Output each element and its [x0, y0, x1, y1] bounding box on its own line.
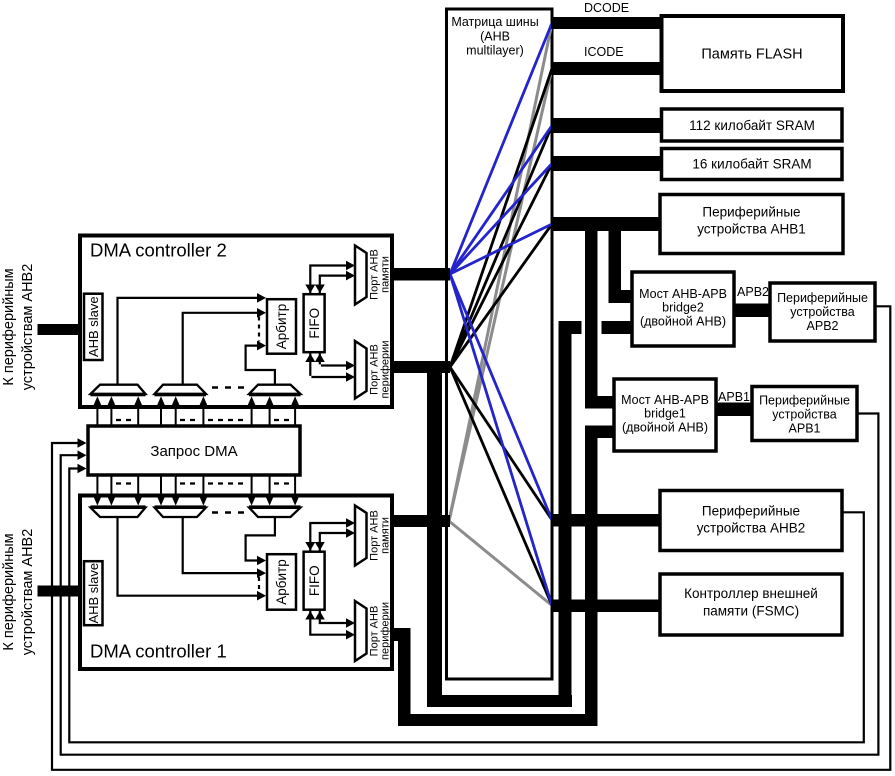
box 112 килобайт SRAM	[662, 109, 843, 141]
mux 1 (DMA1)	[91, 505, 146, 517]
svg-text:bridge1: bridge1	[644, 407, 686, 421]
dashes between mux2 and mux3 (DMA1)	[212, 511, 245, 514]
svg-text:(двойной AHB): (двойной AHB)	[622, 421, 708, 435]
svg-text:FIFO: FIFO	[307, 565, 322, 596]
svg-text:16 килобайт SRAM: 16 килобайт SRAM	[692, 157, 811, 172]
svg-text:(AHB: (AHB	[480, 30, 510, 44]
svg-text:памяти (FSMC): памяти (FSMC)	[703, 604, 799, 619]
svg-text:Запрос DMA: Запрос DMA	[150, 443, 237, 460]
wires Запрос DMA to DMA2 muxes (up arrows)	[97, 403, 295, 427]
svg-text:AHB slave: AHB slave	[86, 296, 101, 357]
svg-text:Арбитр: Арбитр	[274, 304, 289, 349]
box FIFO (DMA2)	[304, 294, 325, 352]
label К периферийным устройствам AHB2 (lower)	[1, 529, 36, 656]
box Мост AHB-APB bridge2	[632, 272, 734, 346]
svg-text:APB1: APB1	[718, 390, 750, 404]
svg-text:Периферийные: Периферийные	[759, 394, 850, 408]
wire FIFO to peripheral port lower (DMA2)	[305, 354, 355, 382]
box Память FLASH	[662, 16, 844, 91]
box Периферийные устройства APB1	[752, 387, 857, 441]
wire FIFO to memory port lower (DMA1)	[315, 528, 355, 550]
port trapezoid Порт AHB памяти (DMA1)	[355, 506, 392, 566]
wire FIFO to memory port upper (DMA1)	[305, 518, 355, 550]
svg-text:Порт AHB: Порт AHB	[368, 606, 380, 657]
svg-text:периферии: периферии	[380, 602, 392, 660]
wire mux1 to Арбитр (DMA2)	[116, 293, 266, 385]
node L3 gray fan (DMA1 memory port master)	[449, 23, 552, 606]
box Периферийные устройства AHB1	[660, 195, 843, 254]
svg-text:устройства: устройства	[790, 305, 854, 319]
wire mux2 to Арбитр (DMA2)	[182, 308, 266, 385]
port trapezoid Порт AHB периферии (DMA2)	[355, 341, 392, 399]
svg-text:ICODE: ICODE	[584, 45, 624, 59]
wire FIFO to memory port upper (DMA2)	[305, 261, 355, 293]
bus matrix to 16K SRAM	[551, 156, 665, 171]
bus DMA1 peripheral port to bridge1 lower port	[390, 426, 616, 727]
svg-text:устройствам AHB2: устройствам AHB2	[20, 529, 36, 656]
box Контроллер внешней памяти (FSMC)	[660, 574, 842, 635]
bus DMA1 memory port to matrix	[390, 515, 450, 527]
wires Запрос DMA to DMA1 muxes (down arrows)	[97, 477, 295, 499]
dashed wire Арбитр input (DMA2)	[258, 317, 260, 342]
node L1 blue fan (DMA2 memory port master)	[450, 23, 552, 606]
svg-text:APB2: APB2	[807, 319, 839, 333]
label К периферийным устройствам AHB2 (upper)	[1, 264, 36, 391]
bus ICODE (matrix to FLASH)	[551, 62, 665, 75]
svg-text:FIFO: FIFO	[307, 308, 322, 339]
bus AHB2 peripherals entry DMA2 (left edge)	[38, 324, 84, 335]
box Арбитр (DMA1)	[267, 554, 296, 610]
svg-text:памяти: памяти	[380, 517, 392, 554]
bus branch AHB1 to bridge2 upper port	[609, 220, 633, 303]
bus branch AHB1 to bridge1 upper port	[585, 220, 616, 409]
bus DMA2 peripheral port to bridge2 lower port	[390, 321, 632, 707]
port trapezoid Порт AHB памяти (DMA2)	[355, 246, 392, 305]
wire mux3 to Арбитр (DMA1)	[246, 517, 275, 565]
node L2 black fan (DMA2 peripheral port master)	[450, 69, 552, 606]
svg-text:устройства AHB1: устройства AHB1	[697, 222, 806, 237]
bus matrix to 112K SRAM	[551, 118, 665, 133]
svg-text:Контроллер внешней: Контроллер внешней	[684, 586, 818, 601]
svg-text:multilayer): multilayer)	[466, 44, 524, 58]
bus matrix to AHB1 peripherals	[551, 217, 662, 231]
svg-text:устройства AHB2: устройства AHB2	[697, 521, 806, 536]
svg-text:Периферийные: Периферийные	[702, 504, 800, 519]
wire FIFO to memory port lower (DMA2)	[315, 271, 355, 293]
mux 1 (DMA2)	[91, 385, 146, 397]
box DMA controller 2	[80, 236, 392, 408]
box Мост AHB-APB bridge1	[614, 379, 716, 451]
box Запрос DMA	[88, 426, 300, 475]
box FIFO (DMA1)	[304, 552, 325, 610]
svg-text:112 килобайт SRAM: 112 килобайт SRAM	[689, 118, 815, 133]
dashed wire Арбитр input (DMA1)	[258, 577, 260, 592]
box Периферийные устройства AHB2	[660, 491, 842, 551]
label Матрица шины (AHB multilayer)	[451, 15, 538, 58]
svg-text:bridge2: bridge2	[662, 301, 704, 315]
label APB2	[737, 285, 769, 299]
svg-text:DMA controller 2: DMA controller 2	[90, 240, 227, 261]
mux 3 (DMA1)	[249, 505, 301, 517]
bus DMA2 memory port to matrix	[390, 268, 450, 281]
svg-text:Порт AHB: Порт AHB	[368, 344, 380, 395]
label DCODE	[584, 1, 629, 15]
svg-text:Арбитр: Арбитр	[274, 559, 289, 604]
label ICODE	[584, 45, 624, 59]
box Арбитр (DMA2)	[267, 299, 296, 354]
wire FIFO to peripheral port lower (DMA1)	[305, 611, 355, 640]
svg-text:периферии: периферии	[380, 341, 392, 399]
wire DMA request feedback from APB1 peripherals to Запрос DMA	[61, 414, 879, 755]
wire DMA request feedback from AHB2 peripherals to Запрос DMA	[69, 464, 864, 743]
mux 3 (DMA2)	[249, 385, 301, 397]
mux 2 (DMA2)	[155, 385, 207, 397]
svg-text:устройства: устройства	[772, 408, 836, 422]
svg-text:Порт AHB: Порт AHB	[368, 249, 380, 300]
svg-text:памяти: памяти	[380, 256, 392, 293]
svg-text:К периферийным: К периферийным	[1, 533, 17, 650]
port trapezoid Порт AHB периферии (DMA1)	[355, 601, 392, 661]
bus DCODE (matrix to FLASH)	[551, 17, 665, 29]
bus bridge2 to APB2 peripherals	[732, 304, 772, 318]
svg-text:DCODE: DCODE	[584, 1, 629, 15]
wire mux2 to Арбитр (DMA1)	[183, 517, 266, 578]
wire mux1 to Арбитр (DMA1)	[118, 517, 267, 601]
svg-text:Матрица шины: Матрица шины	[451, 15, 538, 29]
svg-text:Периферийные: Периферийные	[777, 291, 868, 305]
wire mux3 to Арбитр (DMA2)	[245, 341, 277, 385]
dashed row between Запрос DMA and DMA1	[116, 482, 291, 484]
svg-text:Порт AHB: Порт AHB	[368, 510, 380, 561]
wire FIFO to peripheral port upper (DMA1)	[315, 611, 355, 628]
svg-text:APB1: APB1	[789, 422, 821, 436]
svg-text:Мост AHB-APB: Мост AHB-APB	[639, 287, 727, 301]
wire DMA request feedback from APB2 peripherals to Запрос DMA	[52, 306, 890, 770]
bus AHB2 peripherals entry DMA1 (left edge)	[38, 586, 84, 597]
svg-text:Память FLASH: Память FLASH	[701, 47, 802, 63]
dashes between mux2 and mux3 (DMA2)	[212, 386, 245, 389]
label APB1	[718, 390, 750, 404]
bus matrix to FSMC	[551, 600, 662, 613]
bus matrix to AHB2 peripherals	[551, 514, 662, 527]
mux 2 (DMA1)	[155, 505, 207, 517]
dashed row between DMA2 and Запрос DMA	[116, 419, 291, 421]
svg-text:К периферийным: К периферийным	[1, 268, 17, 385]
box DMA controller 1	[80, 496, 392, 670]
wire FIFO to peripheral port upper (DMA2)	[315, 354, 355, 371]
svg-text:DMA controller 1: DMA controller 1	[90, 641, 227, 662]
svg-text:(двойной AHB): (двойной AHB)	[640, 315, 726, 329]
svg-text:Мост AHB-APB: Мост AHB-APB	[621, 393, 709, 407]
box 16 килобайт SRAM	[662, 149, 843, 180]
svg-text:устройствам AHB2: устройствам AHB2	[20, 264, 36, 391]
box bus matrix (AHB multilayer)	[447, 9, 553, 679]
bus bridge1 to APB1 peripherals	[714, 403, 754, 417]
svg-text:APB2: APB2	[737, 285, 769, 299]
box Периферийные устройства APB2	[770, 283, 875, 341]
svg-text:AHB slave: AHB slave	[86, 563, 101, 624]
svg-text:Периферийные: Периферийные	[702, 205, 800, 220]
box AHB slave (DMA1)	[84, 561, 103, 625]
box AHB slave (DMA2)	[84, 294, 103, 360]
